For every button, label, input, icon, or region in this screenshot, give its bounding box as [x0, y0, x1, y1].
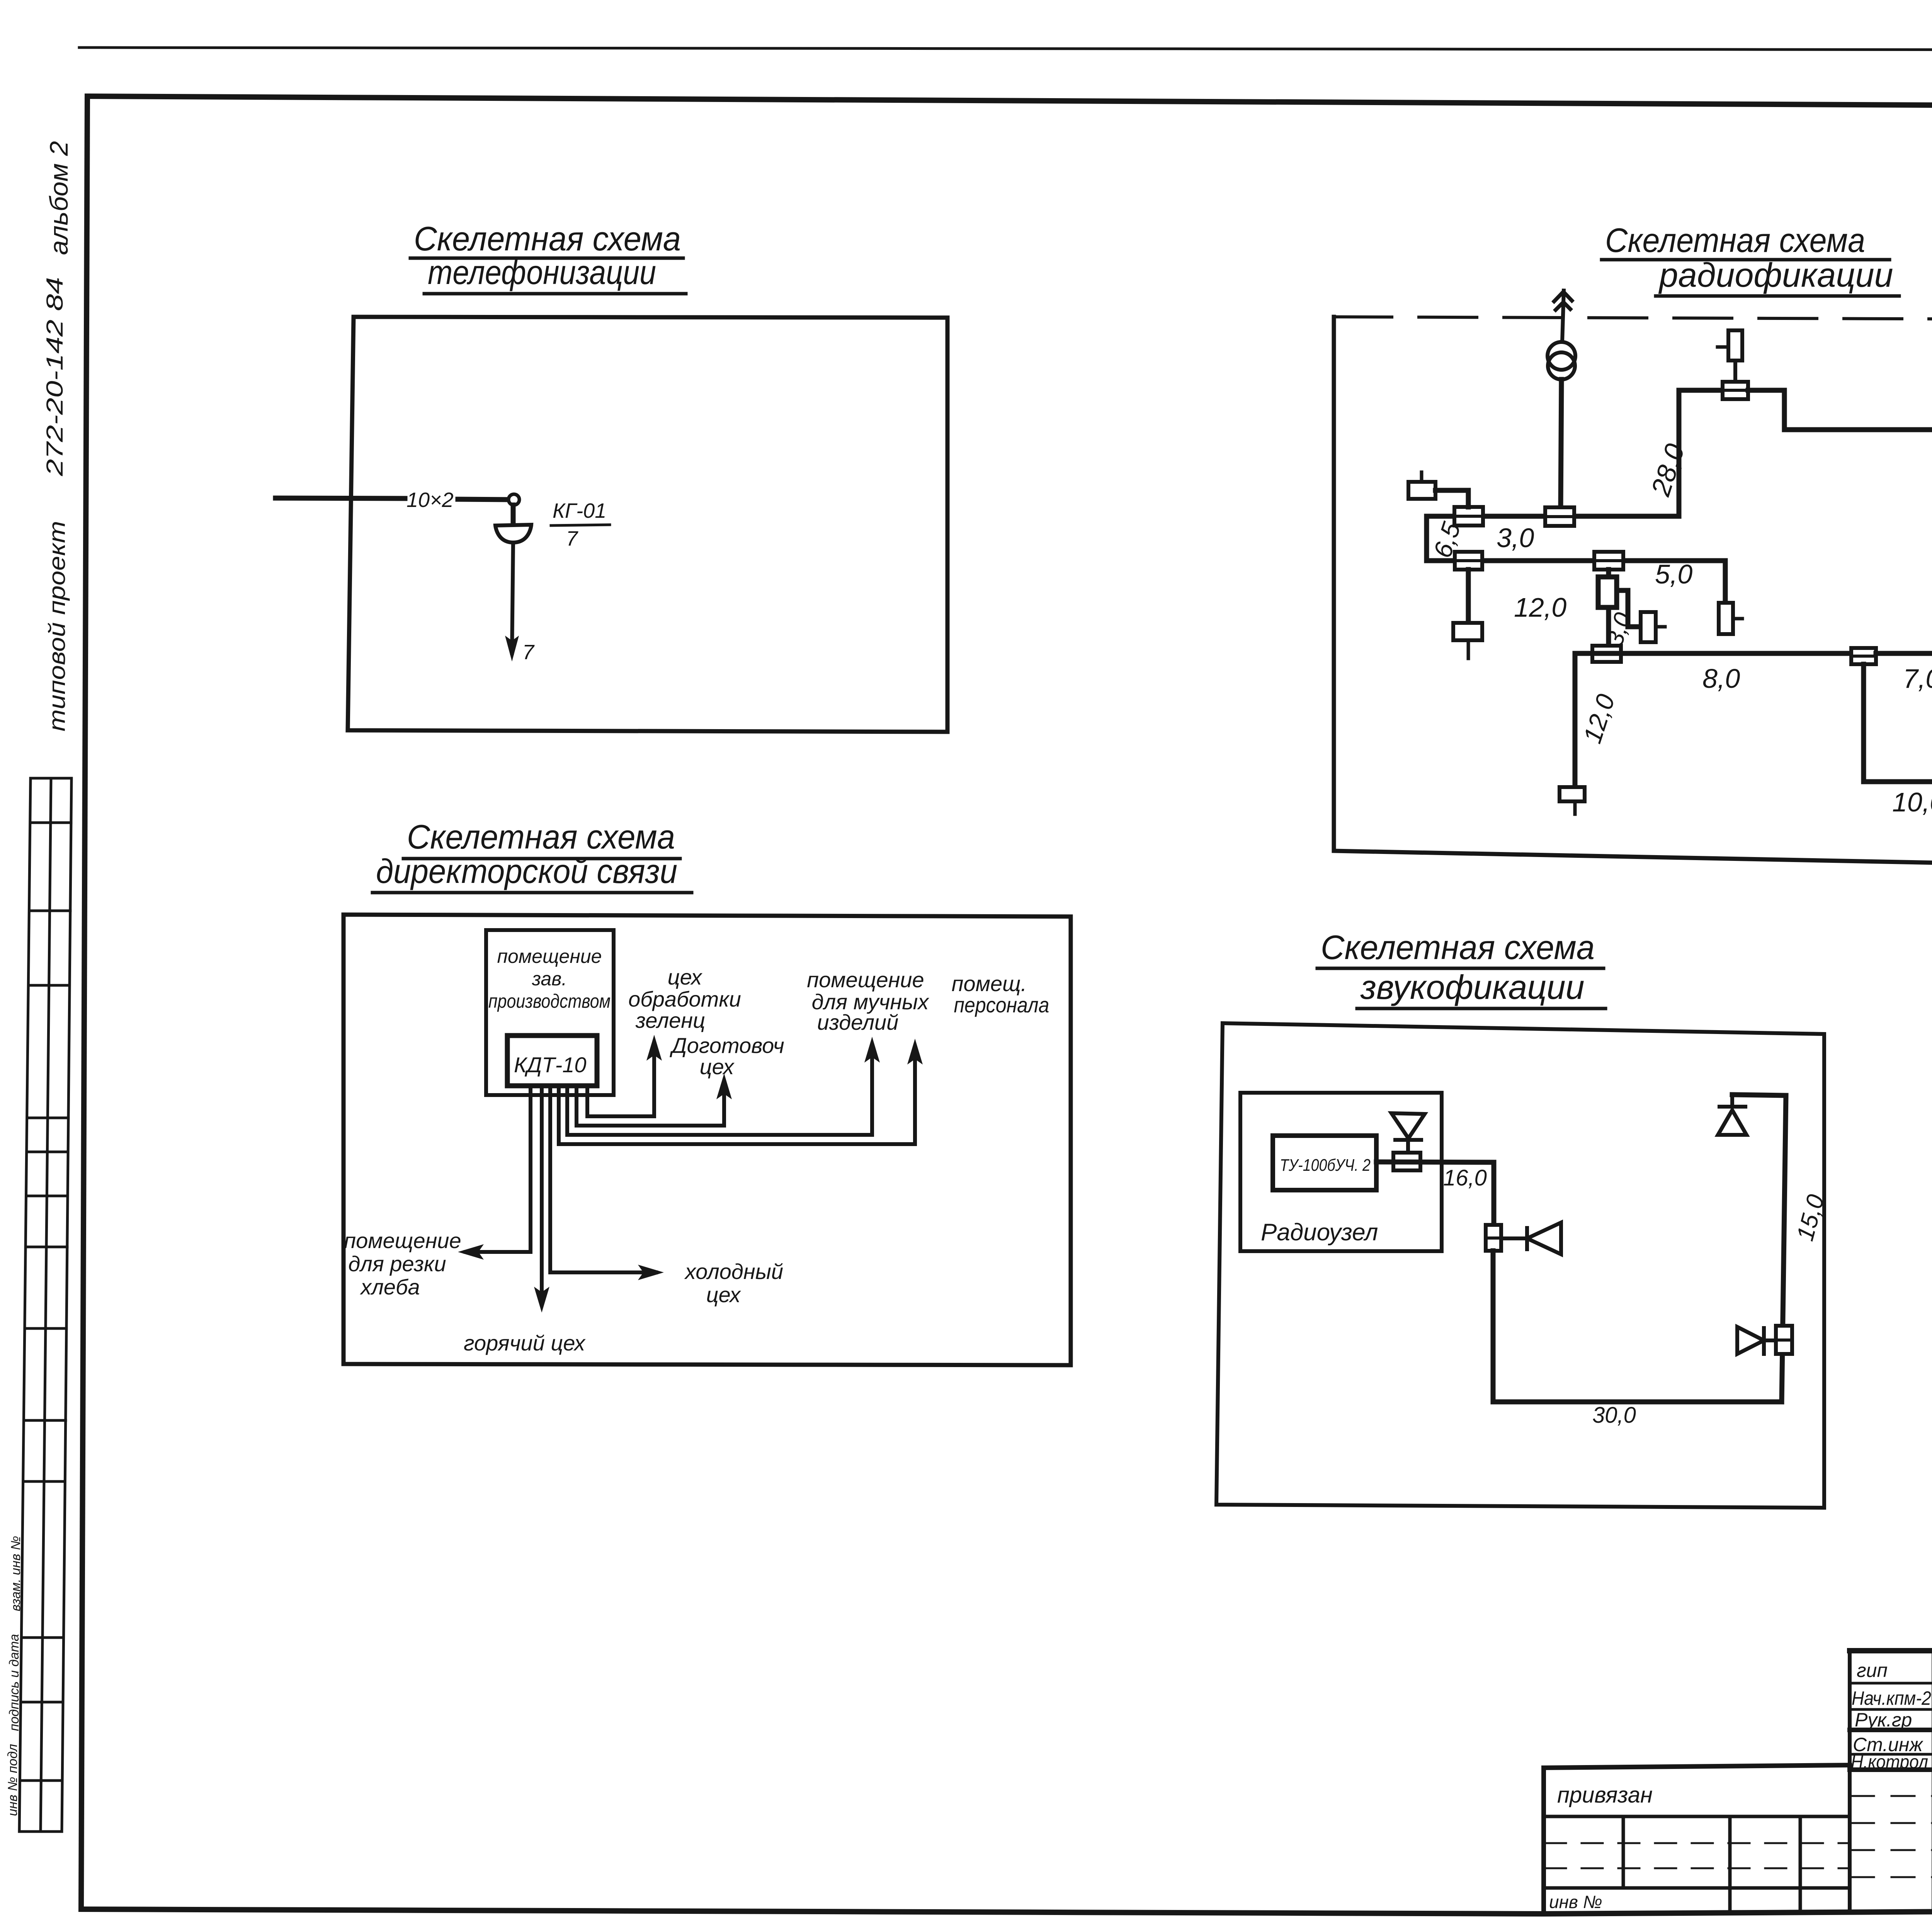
radio node room box [1240, 1093, 1442, 1251]
wire: segment to junction circle [458, 499, 509, 500]
svg-text:КДТ-10: КДТ-10 [514, 1053, 587, 1077]
wire: 15,0 riser [1732, 1095, 1786, 1402]
attenuator tall box [1598, 577, 1617, 607]
svg-text:10,0: 10,0 [1892, 787, 1932, 817]
svg-text:Нач.кпм-2: Нач.кпм-2 [1852, 1687, 1931, 1709]
svg-text:помещение: помещение [807, 968, 924, 992]
svg-text:Рук.гр: Рук.гр [1855, 1709, 1912, 1731]
limiter box LB7 [1592, 646, 1621, 662]
wire: line to staff room (up arrow) [559, 1047, 915, 1144]
wire: line to flour products room (up arrow) [567, 1045, 872, 1135]
loudspeaker horn (on amplifier output) [1391, 1113, 1425, 1153]
personnel row line 3 (heavy) [1850, 1728, 1932, 1732]
personnel row line 2 [1850, 1708, 1932, 1711]
svg-text:привязан: привязан [1557, 1782, 1653, 1808]
svg-text:Скелетная схема: Скелетная схема [414, 219, 681, 258]
svg-text:8,0: 8,0 [1702, 663, 1740, 694]
svg-text:помещ.: помещ. [952, 971, 1027, 996]
svg-text:Скелетная схема: Скелетная схема [407, 818, 675, 856]
telephony room outline [348, 317, 947, 732]
limiter box LB6 [1851, 648, 1876, 664]
svg-text:зеленц: зеленц [635, 1008, 705, 1032]
svg-text:изделий: изделий [817, 1010, 899, 1034]
svg-text:цех: цех [706, 1282, 742, 1307]
director room outline [344, 915, 1071, 1365]
svg-text:ТУ-100бУЧ. 2: ТУ-100бУЧ. 2 [1280, 1156, 1371, 1175]
svg-text:Скелетная схема: Скелетная схема [1605, 221, 1865, 259]
svg-text:персонала: персонала [954, 993, 1049, 1017]
outlet O1 top-left [1408, 472, 1435, 499]
wire: 12,0 drop [1573, 653, 1578, 787]
svg-text:16,0: 16,0 [1443, 1165, 1487, 1190]
wire: 20,0 run [1748, 390, 1932, 430]
wire: O1 to LB1 [1435, 490, 1468, 507]
svg-text:КГ-01: КГ-01 [553, 499, 606, 522]
svg-text:7: 7 [522, 641, 535, 664]
personnel row line 1 [1850, 1682, 1932, 1685]
svg-text:12,0: 12,0 [1514, 592, 1566, 622]
svg-text:директорской связи: директорской связи [376, 852, 677, 890]
limiter box LB2 [1545, 507, 1574, 526]
svg-text:7,0: 7,0 [1903, 663, 1932, 694]
svg-text:7: 7 [566, 527, 578, 550]
limiter box LB1 [1454, 507, 1483, 526]
outlet O7 [1560, 787, 1585, 814]
wire: 7,0 run [1876, 612, 1932, 653]
outlet O5 [1641, 612, 1665, 642]
wire: line to greens processing shop (up arrow) [587, 1043, 654, 1116]
drawing frame [87, 96, 1932, 109]
svg-text:Радиоузел: Радиоузел [1261, 1219, 1378, 1246]
wire: LB3 up to outlet O2 [1733, 361, 1737, 382]
svg-text:холодный: холодный [684, 1259, 783, 1284]
speaker (mid, pointing left) [1501, 1223, 1561, 1254]
svg-text:производством: производством [488, 990, 611, 1012]
svg-text:взам. инв №: взам. инв № [9, 1536, 23, 1611]
unit box КДТ-10 [507, 1036, 597, 1086]
svg-text:телефонизации: телефонизации [428, 253, 656, 291]
svg-text:Н.котрол: Н.котрол [1851, 1752, 1928, 1772]
outlet O6 [1453, 623, 1482, 658]
wire: riser with down arrow [512, 543, 513, 653]
limiter box LB3 [1723, 382, 1748, 399]
wire: line to hot shop (down arrow) [540, 1086, 544, 1304]
personnel empty row dashes [1851, 1796, 1932, 1877]
wire: bus 2 (12,0 / 5,0) [1427, 558, 1725, 563]
title block top edge [1850, 1648, 1932, 1653]
svg-text:3,0: 3,0 [1497, 523, 1534, 553]
svg-text:инв № подл: инв № подл [5, 1744, 20, 1816]
distribution box KG-01 (dome symbol) [495, 525, 531, 543]
svg-text:цех: цех [700, 1054, 735, 1079]
personnel table left edge [1848, 1651, 1852, 1912]
wire: 10,0 run [1864, 664, 1932, 782]
node: junction circle [509, 494, 519, 505]
wire: line to finishing shop (up arrow) [577, 1082, 724, 1126]
svg-text:хлеба: хлеба [359, 1275, 420, 1299]
svg-text:гип: гип [1857, 1660, 1888, 1681]
antenna [1554, 291, 1572, 342]
limiter box LB4 [1455, 552, 1482, 570]
привязан table outline [1544, 1765, 1850, 1911]
speaker (top, pointing up) [1718, 1095, 1747, 1135]
svg-text:инв №: инв № [1549, 1892, 1602, 1912]
wire: 5,0 drop to outlet O4 [1723, 561, 1728, 603]
wire: 28,0 riser [1679, 390, 1723, 516]
wire: bus 3 (8,0) [1575, 651, 1851, 656]
svg-text:10×2: 10×2 [406, 488, 454, 512]
wire: line to bread-cutting room (left arrow) [466, 1086, 531, 1252]
limiter box LB5 [1594, 552, 1623, 570]
splitter box S1 [1393, 1153, 1420, 1170]
svg-text:помещение: помещение [497, 946, 602, 967]
amplifier box ТУ-100БУЧ.2 [1273, 1136, 1376, 1190]
outlet O4 [1719, 603, 1742, 634]
svg-text:радиофикации: радиофикации [1658, 256, 1893, 294]
splitter box S3 on riser [1776, 1326, 1792, 1354]
svg-text:помещение: помещение [344, 1228, 461, 1253]
привязан table dashed rows [1545, 1843, 1848, 1868]
wire: 3,0 branch [1617, 590, 1641, 627]
transformer (feeder unit) [1548, 342, 1575, 370]
svg-text:альбом 2: альбом 2 [44, 141, 73, 255]
wire: drop and 30,0 run [1493, 1251, 1782, 1402]
svg-text:зав.: зав. [532, 968, 567, 990]
left margin stamp ladder [19, 778, 71, 1832]
svg-text:типовой проект: типовой проект [44, 521, 70, 731]
personnel row line 5 [1850, 1767, 1932, 1772]
wire: attenuator down to bus 3 [1606, 607, 1611, 646]
svg-text:Доготовоч: Доготовоч [669, 1033, 784, 1058]
splitter box S2 [1486, 1225, 1501, 1251]
sound room outline [1216, 1023, 1824, 1508]
wire: left vertical 6,5 [1424, 516, 1429, 561]
svg-text:горячий цех: горячий цех [464, 1331, 586, 1355]
wire: drop from circle to box KG-01 [511, 505, 516, 525]
radio room outline [1334, 317, 1932, 320]
wire: LB4 drop [1466, 570, 1471, 623]
wire: incoming line segment left [276, 498, 405, 498]
wire: LB5 drop [1606, 570, 1611, 577]
personnel column: role/name separator [1932, 1651, 1932, 1912]
svg-text:30,0: 30,0 [1592, 1403, 1636, 1428]
svg-text:обработки: обработки [628, 987, 741, 1011]
outlet O2 [1718, 330, 1742, 361]
svg-text:для резки: для резки [348, 1252, 446, 1276]
wire: feeder drop to bus 1 [1561, 379, 1561, 508]
speaker (right, pointing right) [1737, 1327, 1776, 1354]
svg-text:272-20-142 84: 272-20-142 84 [42, 277, 68, 476]
top margin rule [79, 48, 1932, 51]
wire: bus 1 (3,0) [1427, 514, 1679, 519]
wire: line to cold shop (right arrow) [550, 1086, 656, 1272]
svg-text:подпись и дата: подпись и дата [7, 1634, 22, 1731]
svg-text:Скелетная схема: Скелетная схема [1321, 928, 1595, 966]
svg-text:цех: цех [668, 965, 703, 989]
svg-text:звукофикации: звукофикации [1360, 968, 1585, 1006]
svg-text:5,0: 5,0 [1655, 559, 1692, 589]
wire: 16,0 run [1376, 1162, 1494, 1225]
box: помещение зав. производством [486, 930, 614, 1095]
personnel row line 4 [1850, 1753, 1932, 1756]
